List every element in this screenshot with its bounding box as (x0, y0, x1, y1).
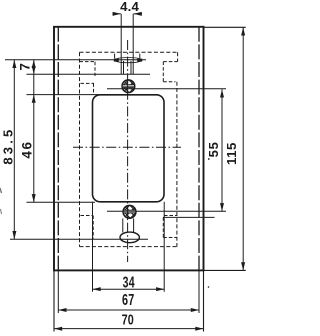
plate bottom edge extension for 115 (204, 269, 246, 271)
dashed step y81.8 right (163, 81, 175, 83)
plate left edge extension for 70 (53, 270, 55, 331)
arrow 70 right (195, 327, 203, 331)
dashed inner connector left bottom (92, 216, 94, 239)
dashed connector shell top edge (80, 51, 178, 53)
dashed step y83.4 left (81, 82, 95, 84)
arrow 83.5 bottom down (12, 231, 16, 239)
horizontal center line (73, 146, 181, 148)
dashed inner connector left top (93, 83, 95, 94)
top screw extension line for 55 (107, 88, 226, 90)
dashed shell step top-right (163, 61, 177, 63)
svg-text:70: 70 (122, 311, 134, 328)
center line through screws overlay (123, 80, 136, 219)
cutout bottom extension for 46 (27, 201, 96, 203)
dim line 115 (242, 27, 244, 270)
line y74 (7 bottom reference) (27, 73, 151, 75)
top screw slot inner right line (130, 61, 132, 74)
dim line 55 (221, 89, 223, 211)
speck near 55 text (208, 158, 210, 160)
bottom latch ellipse (120, 232, 139, 243)
dashed shell right side upper (177, 52, 179, 61)
arrow 83.5 top up (12, 60, 16, 68)
dim line 4.4 arrows row (113, 13, 121, 15)
bottom screw slot left line (122, 219, 124, 233)
svg-text:55: 55 (206, 141, 221, 157)
top screw slot outer left line (120, 14, 122, 74)
left margin smudge marks (0, 188, 2, 214)
arrow 115 top up (241, 27, 245, 35)
vertical center line (127, 40, 129, 262)
dimension texts (1, 0, 239, 328)
hat tick right (139, 54, 141, 59)
svg-text:83.5: 83.5 (1, 127, 16, 165)
bottom latch reference line (83.5 bottom) (10, 238, 148, 240)
arrow 7 bottom down (32, 66, 36, 74)
hidden 67-wide box right line (198, 27, 200, 271)
cutout top extension for 46 (27, 94, 100, 96)
dim line 83.5 (13, 60, 15, 239)
top screw slot inner left line (123, 61, 125, 74)
dashed step y237.5 right (163, 237, 176, 239)
arrow 55 top up (220, 89, 224, 97)
dashed shell bottom edge (80, 246, 178, 248)
bottom screw head (120, 203, 139, 222)
dashed neck left (94, 62, 96, 76)
arrow 4.4 right points left (134, 12, 142, 16)
svg-text:115: 115 (224, 142, 239, 165)
faint line below cutout right to plate edge (163, 216, 215, 218)
arrow 55 bottom down (220, 203, 224, 211)
hidden 67-wide box left line (57, 27, 59, 271)
arrow 67 right (191, 308, 199, 312)
plate right edge extension for 70 (203, 270, 205, 331)
top flat latch ellipse (114, 58, 142, 63)
arrow 34 left (93, 287, 101, 291)
arrow 67 left (58, 308, 66, 312)
dashed neck right (162, 62, 164, 82)
hidden 67-wide box left extension (57, 270, 59, 313)
dim line 70 (54, 328, 204, 330)
top latch end blob right (137, 59, 142, 62)
dashed shell step top-left (80, 61, 96, 63)
arrow 46 top up (32, 95, 36, 103)
arrow 46 bottom down (32, 194, 36, 202)
svg-text:67: 67 (122, 291, 134, 308)
dashed shell left side (79, 52, 81, 246)
svg-text:34: 34 (123, 274, 135, 292)
cutout left edge extension to 34 dim (92, 202, 94, 292)
dim line 7 and 46 shared vertical (33, 60, 35, 203)
arrow 7 top up (32, 60, 36, 68)
dashed step bottom-left (81, 215, 94, 217)
bottom screw extension line for 55 (107, 210, 226, 212)
dashed step bottom-right (164, 215, 177, 217)
svg-text:46: 46 (19, 140, 34, 158)
top screw head (119, 77, 138, 96)
cutout right edge extension to 34 dim (163, 202, 165, 292)
panel plate outline (54, 27, 204, 271)
arrow 4.4 left points right (113, 12, 121, 16)
dashed shell right side lower (176, 82, 178, 247)
dashed neck right bottom (162, 217, 164, 237)
plate top edge extension for 115 (204, 26, 246, 28)
arrow 34 right (156, 287, 164, 291)
svg-text:4.4: 4.4 (120, 0, 139, 14)
top latch end blob left (114, 59, 119, 62)
top latch reference line (83.5 / 7 top) (5, 59, 146, 61)
arrowheads (12, 12, 245, 331)
svg-text:7: 7 (17, 63, 32, 71)
top screw slot outer right line (132, 14, 134, 74)
speck right of 34 line (208, 286, 210, 288)
bottom screw slot right line (133, 219, 135, 233)
arrow 70 left (54, 327, 62, 331)
arrow 115 bottom down (241, 262, 245, 270)
hidden 67-wide box right extension (198, 270, 200, 313)
hat tick left (114, 54, 116, 59)
dim line 67 (58, 309, 199, 311)
dim line 34 (93, 288, 165, 290)
cutout rounded rectangle (93, 95, 165, 202)
